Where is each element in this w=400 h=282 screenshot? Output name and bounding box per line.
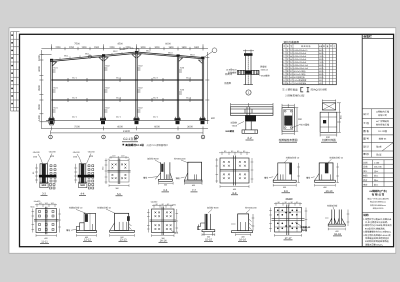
leader to anchor [292, 125, 300, 128]
svg-text:1800: 1800 [168, 46, 174, 49]
column below [246, 121, 251, 129]
svg-text:2.焊条采用E43型: 2.焊条采用E43型 [285, 94, 305, 98]
svg-text:Φ12圆钢拉条: Φ12圆钢拉条 [294, 76, 305, 79]
top dims [274, 202, 302, 206]
svg-text:5: 5 [283, 61, 284, 64]
svg-text:梁: 梁 [287, 55, 289, 58]
svg-text:高强螺栓: 高强螺栓 [228, 72, 238, 75]
svg-text:12: 12 [283, 82, 285, 85]
beam body [231, 107, 274, 116]
svg-text:邮编:510000: 邮编:510000 [373, 207, 384, 210]
svg-text:2: 2 [283, 52, 284, 55]
svg-text:420: 420 [319, 82, 322, 85]
eave haunch marks [52, 55, 202, 67]
footing bolt ticks [50, 117, 205, 121]
svg-text:4: 4 [283, 58, 284, 61]
svg-text:7500: 7500 [74, 126, 80, 129]
svg-text:Φ140x3.0钢管: Φ140x3.0钢管 [294, 70, 306, 73]
svg-text:-80x8: -80x8 [232, 125, 238, 128]
svg-text:梁: 梁 [287, 64, 289, 67]
dims [325, 210, 349, 231]
svg-text:GL-2: GL-2 [153, 77, 159, 80]
svg-text:名: 名 [287, 45, 289, 48]
base plate [242, 130, 258, 133]
top dim [322, 99, 335, 102]
top dims [282, 104, 298, 135]
svg-text:900: 900 [319, 79, 322, 82]
svg-text:场焊缝应满焊,焊后清渣并: 场焊缝应满焊,焊后清渣并 [365, 237, 390, 240]
svg-text:9-9: 9-9 [284, 190, 288, 193]
top dims [231, 103, 274, 107]
right dimension chain [205, 52, 209, 124]
svg-text:1500: 1500 [38, 55, 41, 61]
svg-text:数: 数 [323, 45, 325, 48]
svg-text:柱脚加劲板: 柱脚加劲板 [327, 204, 338, 207]
svg-text:GL-1: GL-1 [116, 77, 122, 80]
svg-text:H300x200x6x8: H300x200x6x8 [294, 52, 307, 55]
row dividers [362, 109, 393, 213]
svg-text:LJ: LJ [290, 82, 292, 85]
svg-text:GJ-1详图: GJ-1详图 [378, 130, 387, 133]
column attachment marks [52, 68, 182, 112]
svg-text:1: 1 [283, 49, 284, 52]
svg-text:GL-3: GL-3 [186, 97, 192, 100]
company block [369, 189, 387, 197]
leaders left [230, 122, 237, 128]
header row [362, 38, 393, 40]
svg-text:GL-2: GL-2 [186, 77, 192, 80]
svg-text:见图集: 见图集 [224, 81, 232, 85]
svg-text:21600: 21600 [123, 130, 131, 133]
svg-text:连接板: 连接板 [260, 66, 267, 69]
right side small labels [211, 72, 233, 120]
svg-text:柱脚加劲板-10: 柱脚加劲板-10 [286, 157, 300, 160]
signature strip marks [11, 35, 13, 105]
leader labels [32, 151, 56, 159]
svg-text:4200: 4200 [38, 66, 41, 72]
side bolt grid [50, 165, 56, 182]
svg-text:3000: 3000 [140, 46, 146, 49]
column shaft [161, 162, 170, 179]
column A [51, 60, 53, 121]
bolt cluster below beam [245, 115, 256, 121]
column flange [188, 162, 202, 180]
leader texts right [260, 66, 270, 78]
svg-text:柱脚加劲板-10: 柱脚加劲板-10 [69, 207, 83, 210]
svg-text:WL: WL [290, 55, 293, 58]
svg-text:H250x125x6x8: H250x125x6x8 [294, 61, 307, 64]
svg-text:传真:020-8888xxxx: 传真:020-8888xxxx [370, 204, 386, 207]
svg-text:6000: 6000 [154, 126, 160, 129]
svg-text:8-8: 8-8 [233, 192, 237, 195]
svg-text:有限公司: 有限公司 [378, 114, 387, 117]
dims [185, 182, 203, 185]
top dims [219, 152, 250, 156]
right hatch marks [249, 214, 255, 231]
svg-text:图 名: 图 名 [363, 129, 369, 133]
anchors inside [241, 222, 246, 231]
left flare [110, 223, 115, 231]
svg-text:WL1: WL1 [64, 55, 69, 58]
binding-edge signature strip [11, 32, 20, 111]
column D [177, 55, 178, 120]
row labels [363, 112, 369, 156]
svg-text:制作安装工程: 制作安装工程 [376, 123, 390, 126]
side dims [147, 209, 178, 237]
svg-text:3000: 3000 [319, 76, 323, 79]
svg-text:梁: 梁 [287, 58, 289, 61]
svg-text:制图: 制图 [363, 175, 367, 178]
column C (ridge) [136, 52, 137, 121]
svg-text:7: 7 [283, 67, 284, 70]
svg-text:Φ114x3.0钢管: Φ114x3.0钢管 [294, 73, 306, 76]
svg-text:WL3: WL3 [190, 53, 195, 56]
svg-text:隅: 隅 [287, 79, 289, 82]
rafter member labels [64, 50, 195, 58]
left dim numbers (rotated) [38, 55, 41, 121]
svg-text:1800: 1800 [194, 46, 200, 49]
svg-text:3-3: 3-3 [42, 192, 46, 195]
svg-text:3000: 3000 [154, 46, 160, 49]
column top knots [50, 51, 204, 61]
top cap plate [244, 53, 253, 56]
anchor ticks [91, 224, 93, 230]
svg-text:重: 重 [327, 45, 329, 48]
small rows [363, 161, 382, 186]
svg-text:5-5: 5-5 [117, 193, 121, 196]
base plate [232, 231, 253, 233]
svg-text:7-7: 7-7 [192, 189, 196, 192]
svg-text:注:1.钢柱截面: 注:1.钢柱截面 [282, 88, 298, 92]
svg-text:1500: 1500 [94, 46, 100, 49]
flange splice w/ bolts [237, 70, 259, 75]
svg-text:3600: 3600 [187, 126, 193, 129]
splice plates w/ bolts (dark) [40, 164, 48, 183]
dims [273, 163, 300, 187]
svg-text:撑: 撑 [287, 70, 289, 73]
svg-text:审定: 审定 [363, 184, 367, 187]
row contents [376, 111, 390, 141]
base ground line [46, 120, 208, 122]
leader texts left [226, 69, 238, 75]
svg-text:4500: 4500 [319, 67, 323, 70]
svg-text:GJ-1立面: GJ-1立面 [123, 137, 137, 141]
svg-text:WL1: WL1 [85, 52, 90, 55]
svg-text:4500: 4500 [117, 126, 123, 129]
svg-text:说明:: 说明: [363, 213, 369, 217]
svg-text:3: 3 [283, 55, 284, 58]
svg-text:型: 型 [290, 45, 292, 48]
svg-text:16-16: 16-16 [239, 238, 246, 241]
left flare [185, 173, 188, 180]
dims [159, 182, 174, 185]
svg-text:QL-1: QL-1 [72, 116, 78, 119]
svg-text:xx厂房钢结构: xx厂房钢结构 [376, 120, 390, 123]
svg-text:WL2: WL2 [146, 50, 151, 53]
column E (right eave) [202, 58, 203, 121]
plate [152, 209, 175, 233]
svg-text:3900: 3900 [38, 104, 41, 110]
outer plate box [282, 108, 294, 132]
floor beam level 3 [52, 99, 204, 100]
corner bolts [284, 110, 292, 128]
svg-text:号: 号 [283, 45, 285, 48]
mid double lines [34, 207, 59, 235]
svg-text:-14x360: -14x360 [150, 201, 158, 204]
svg-text:GL-3: GL-3 [72, 97, 78, 100]
svg-text:设 计: 设 计 [363, 112, 369, 116]
svg-text:柱脚加劲板-10: 柱脚加劲板-10 [97, 206, 111, 209]
svg-text:梁: 梁 [287, 67, 289, 70]
column flange [238, 214, 249, 231]
svg-text:拉: 拉 [287, 76, 289, 79]
base tick [244, 84, 254, 86]
svg-text:地址:广州市xx区xx路18号: 地址:广州市xx区xx路18号 [367, 197, 389, 200]
left bracket marks [198, 223, 206, 230]
top dims [35, 204, 57, 208]
dims [315, 163, 339, 187]
gusset plates cross [272, 205, 305, 236]
svg-text:M20: M20 [80, 184, 85, 187]
left dim marks [35, 164, 38, 183]
cross plates [108, 159, 131, 185]
floor beam level 2 [52, 79, 204, 80]
svg-text:3900: 3900 [38, 85, 41, 91]
grid bubbles [49, 135, 205, 139]
svg-text:加劲肋-80x8: 加劲肋-80x8 [147, 157, 159, 160]
svg-text:M20螺栓: M20螺栓 [226, 130, 235, 133]
bracket steps left [77, 223, 85, 231]
svg-text:M16螺栓: M16螺栓 [261, 75, 270, 78]
svg-text:6000: 6000 [319, 73, 323, 76]
base plate [315, 180, 336, 182]
svg-text:L50x4角钢隅撑: L50x4角钢隅撑 [294, 79, 307, 82]
svg-text:-10x160: -10x160 [72, 151, 80, 154]
column box [84, 213, 95, 230]
anchor ticks [322, 174, 331, 180]
bolts [277, 210, 298, 230]
column [205, 214, 211, 230]
inner anchor ticks [194, 174, 196, 180]
overall dimension line [51, 130, 204, 134]
svg-text:WL: WL [290, 58, 293, 61]
svg-text:1800: 1800 [181, 46, 187, 49]
svg-text:2012.06: 2012.06 [374, 166, 382, 169]
svg-text:柱H400x200: 柱H400x200 [245, 207, 257, 210]
inner web lines [275, 208, 302, 233]
svg-text:10.9级M20: 10.9级M20 [226, 69, 237, 72]
base plate [273, 180, 296, 182]
top dim ticks [243, 50, 254, 54]
svg-text:H200x100x5.5x8: H200x100x5.5x8 [294, 64, 308, 67]
svg-text:共: 共 [330, 45, 332, 48]
column flange [115, 213, 129, 230]
svg-text:2250: 2250 [55, 46, 61, 49]
beam stubs level2 [68, 78, 190, 102]
svg-text:-10x180: -10x180 [48, 151, 56, 154]
svg-text:,孔径21.5,摩擦面喷砂: ,孔径21.5,摩擦面喷砂 [146, 144, 169, 147]
base plate [159, 179, 173, 181]
svg-text:电话:020-8888xxxx: 电话:020-8888xxxx [370, 201, 386, 204]
svg-text:8400: 8400 [319, 49, 323, 52]
base plate [328, 224, 345, 226]
top dims [152, 204, 173, 208]
svg-text:长度: 长度 [319, 45, 323, 48]
svg-text:E43型系列,焊缝满焊。: E43型系列,焊缝满焊。 [365, 227, 387, 230]
svg-text:审 核: 审 核 [363, 152, 369, 156]
svg-text:1500: 1500 [81, 46, 87, 49]
hatched column section [284, 116, 292, 126]
splice plate box w/ text [40, 182, 48, 188]
bolt marks grid [39, 211, 55, 231]
svg-text:9: 9 [283, 73, 284, 76]
bottom dimension line [41, 126, 208, 130]
svg-text:4500: 4500 [117, 43, 123, 46]
side dims [216, 158, 254, 188]
svg-text:7500: 7500 [74, 43, 80, 46]
beam center stiffeners [245, 107, 252, 116]
svg-text:设 计: 设 计 [363, 145, 369, 149]
svg-text:8: 8 [283, 70, 284, 73]
left flare [315, 173, 320, 180]
svg-text:截 面 规 格: 截 面 规 格 [301, 45, 310, 48]
left dimension chain [39, 50, 51, 129]
header text [283, 45, 335, 48]
roof beam [50, 52, 205, 62]
signature slash [382, 142, 394, 151]
dims [110, 234, 135, 237]
svg-text:H400x200x8x10: H400x200x8x10 [294, 49, 308, 52]
svg-text:M24锚栓: M24锚栓 [300, 123, 310, 126]
svg-text:1400: 1400 [38, 115, 41, 121]
column B [103, 55, 104, 120]
lower bolt rows [50, 184, 56, 190]
svg-text:-10x180连接板: -10x180连接板 [294, 82, 307, 85]
svg-text:xx钢结构工程: xx钢结构工程 [376, 111, 390, 114]
svg-text:QL-1: QL-1 [153, 116, 159, 119]
left flare [273, 173, 278, 180]
top dimension line [41, 44, 208, 50]
lower box [320, 112, 337, 132]
svg-text:14-14: 14-14 [160, 240, 167, 243]
svg-text:8400: 8400 [319, 52, 323, 55]
roof callout bubbles [88, 55, 91, 58]
svg-text:6000: 6000 [319, 64, 323, 67]
svg-text:柱脚锚栓布置图: 柱脚锚栓布置图 [279, 138, 298, 142]
svg-text:H200x100x5.5x8: H200x100x5.5x8 [294, 67, 308, 70]
svg-text:-10x160: -10x160 [87, 151, 95, 154]
svg-text:梁: 梁 [287, 61, 289, 64]
drawing frame border [20, 34, 394, 246]
left dims [269, 208, 307, 237]
svg-text:加劲肋: 加劲肋 [230, 122, 237, 125]
svg-text:M20: M20 [42, 184, 47, 187]
beam labels level2/3 [72, 77, 192, 119]
top box [322, 103, 335, 110]
svg-text:-10x180: -10x180 [32, 151, 40, 154]
svg-text:板: 板 [287, 82, 289, 85]
svg-text:柱脚大样图: 柱脚大样图 [322, 138, 336, 142]
svg-text:-16x420: -16x420 [33, 200, 41, 203]
svg-text:WL2: WL2 [113, 50, 118, 53]
svg-text:3.高强度螺栓均为10.9级M20。: 3.高强度螺栓均为10.9级M20。 [363, 231, 392, 234]
svg-text:1:100: 1:100 [374, 161, 380, 164]
top dim numbers [55, 46, 199, 49]
detail bubble 1 [246, 90, 251, 95]
svg-text:6: 6 [283, 64, 284, 67]
svg-text:18-18: 18-18 [334, 233, 341, 236]
svg-text:6200: 6200 [319, 70, 323, 73]
svg-text:GL-1: GL-1 [72, 77, 78, 80]
two column shafts [332, 210, 342, 225]
svg-text:校对: 校对 [363, 179, 367, 182]
svg-text:加劲肋-80x8: 加劲肋-80x8 [207, 207, 219, 210]
column member labels [54, 65, 185, 110]
svg-text:均为Q235-B钢: 均为Q235-B钢 [311, 88, 328, 92]
svg-text:10-10: 10-10 [325, 190, 332, 193]
column lines [286, 44, 333, 85]
footing column B [100, 118, 106, 124]
footing column A [48, 118, 55, 125]
svg-text:结施-03: 结施-03 [379, 137, 387, 140]
svg-text:6000: 6000 [165, 43, 171, 46]
mid black band [39, 175, 57, 178]
right eave bubble [212, 48, 217, 53]
svg-text:WL3: WL3 [168, 52, 173, 55]
svg-text:H250x150x6x8: H250x150x6x8 [294, 58, 307, 61]
table body text [283, 49, 323, 85]
svg-text:2250: 2250 [69, 46, 75, 49]
bolt x-marks [112, 164, 127, 180]
svg-text:11-11: 11-11 [41, 241, 48, 244]
svg-text:800: 800 [211, 117, 216, 120]
svg-text:12-12: 12-12 [84, 239, 91, 242]
dims right [320, 103, 341, 137]
svg-text:QL-1: QL-1 [116, 116, 122, 119]
drawing sheet [9, 28, 396, 253]
column box [278, 163, 292, 180]
column box [319, 163, 333, 180]
dims [77, 234, 97, 237]
plates [220, 156, 249, 186]
svg-text:柱脚加劲板-10: 柱脚加劲板-10 [330, 157, 344, 160]
svg-text:撑: 撑 [287, 73, 289, 76]
svg-text:11: 11 [283, 79, 285, 82]
svg-text:15-15: 15-15 [205, 239, 212, 242]
roof purlin ticks [60, 52, 195, 59]
svg-text:注: 注 [334, 45, 336, 48]
svg-text:4-4: 4-4 [81, 192, 85, 195]
dims [231, 224, 251, 236]
svg-text:共4块: 共4块 [302, 229, 308, 232]
svg-text:H300x150x6x8: H300x150x6x8 [294, 55, 307, 58]
flared haunches [329, 218, 346, 224]
svg-text:2250: 2250 [109, 46, 115, 49]
svg-text:李x军: 李x军 [376, 154, 382, 157]
footing column E [200, 118, 206, 124]
bolt x-marks [223, 161, 246, 179]
base plate [110, 230, 135, 232]
right dark patch [127, 216, 130, 221]
svg-text:计,未注明者详见总说明。: 计,未注明者详见总说明。 [365, 221, 389, 224]
svg-text:7500: 7500 [319, 55, 323, 58]
svg-text:4.除注明外角焊缝hf=6mm,现: 4.除注明外角焊缝hf=6mm,现 [363, 234, 391, 237]
row lines [283, 49, 337, 82]
svg-text:高强螺栓10.9级: 高强螺栓10.9级 [125, 143, 144, 147]
svg-text:漆膜总厚度125μm。: 漆膜总厚度125μm。 [365, 243, 384, 246]
svg-text:GL: GL [290, 67, 293, 70]
footing column C [134, 118, 140, 124]
